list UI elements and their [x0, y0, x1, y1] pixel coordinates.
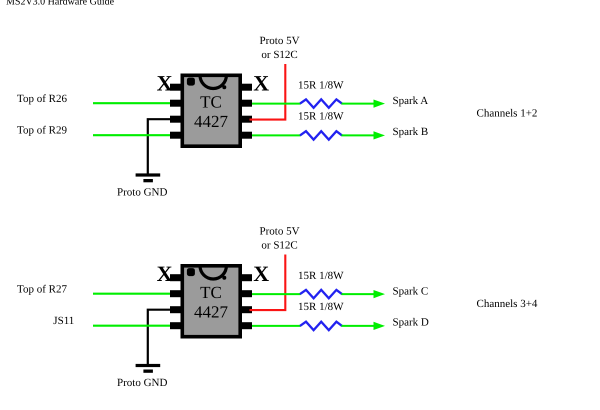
- svg-text:or S12C: or S12C: [261, 49, 297, 61]
- svg-text:or S12C: or S12C: [261, 240, 297, 252]
- svg-text:Spark C: Spark C: [393, 286, 429, 298]
- svg-text:MS2V3.0 Hardware Guide: MS2V3.0 Hardware Guide: [6, 0, 115, 8]
- svg-text:15R 1/8W: 15R 1/8W: [298, 111, 344, 123]
- svg-text:JS11: JS11: [53, 315, 74, 327]
- svg-text:15R 1/8W: 15R 1/8W: [298, 79, 344, 91]
- svg-text:Proto GND: Proto GND: [117, 187, 167, 199]
- svg-text:15R 1/8W: 15R 1/8W: [298, 301, 344, 313]
- svg-text:Top of R26: Top of R26: [17, 93, 67, 105]
- svg-text:Top of R27: Top of R27: [17, 283, 67, 295]
- svg-text:Proto 5V: Proto 5V: [259, 226, 299, 238]
- svg-text:Proto GND: Proto GND: [117, 377, 167, 389]
- svg-text:Spark D: Spark D: [393, 317, 429, 329]
- svg-text:Proto 5V: Proto 5V: [259, 35, 299, 47]
- svg-text:Top of R29: Top of R29: [17, 125, 67, 137]
- svg-text:Spark A: Spark A: [393, 95, 429, 107]
- svg-text:15R 1/8W: 15R 1/8W: [298, 270, 344, 282]
- svg-text:Channels 3+4: Channels 3+4: [477, 298, 538, 310]
- svg-text:Spark B: Spark B: [393, 126, 429, 138]
- svg-text:Channels 1+2: Channels 1+2: [477, 108, 538, 120]
